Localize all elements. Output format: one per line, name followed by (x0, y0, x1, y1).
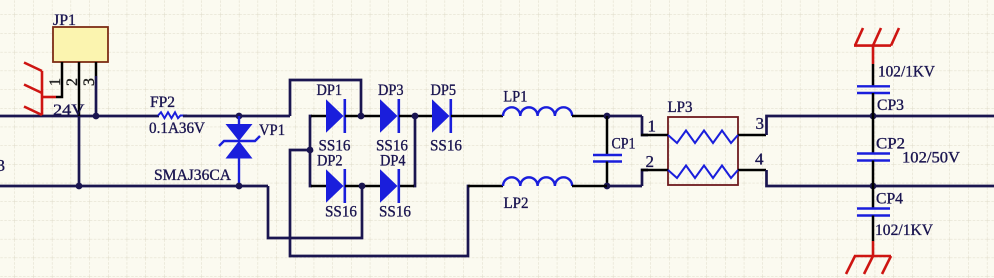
svg-text:1: 1 (47, 78, 64, 86)
junction DP1 cathode node (358, 113, 365, 120)
inductor LP2 (503, 177, 572, 186)
junction VP1 bottom (236, 183, 243, 190)
pin DP2 anode (311, 185, 326, 188)
svg-text:DP1: DP1 (317, 82, 343, 99)
chassis ground at JP1 (red) (24, 63, 56, 116)
capacitor CP1 (593, 116, 622, 186)
svg-text:LP3: LP3 (668, 99, 693, 116)
junction CP4 top on bottom rail (870, 183, 877, 190)
diode DP5 (432, 99, 451, 133)
LP3 pin 1 (641, 134, 668, 137)
svg-text:DP5: DP5 (431, 82, 457, 99)
svg-text:24V: 24V (53, 102, 85, 119)
svg-text:SS16: SS16 (325, 204, 357, 221)
LP3 pin 4 (738, 169, 766, 172)
wire LP1 to CP1 node (572, 115, 607, 118)
wire jog into LP3 pin2 (642, 170, 648, 186)
pin 2 of JP1 (78, 62, 81, 116)
inductor LP1 (503, 107, 572, 116)
wire DP5 cathode to LP1 (451, 115, 503, 118)
svg-text:102/50V: 102/50V (902, 150, 960, 167)
svg-text:DP2: DP2 (317, 153, 343, 170)
svg-text:CP2: CP2 (876, 136, 905, 153)
pin DP4 cathode (399, 185, 414, 188)
svg-text:1: 1 (648, 117, 657, 136)
wire pin2 down to bottom rail (78, 116, 81, 186)
svg-text:LP2: LP2 (504, 195, 529, 212)
svg-text:CP3: CP3 (877, 97, 904, 114)
junction DP1/DP2 anode node (307, 147, 314, 154)
diode DP3 (380, 99, 399, 133)
junction CP3 bottom on top rail (870, 113, 877, 120)
svg-text:DP3: DP3 (378, 82, 404, 99)
wire fuse to VP1 node (183, 115, 290, 118)
connector JP1 (53, 27, 108, 62)
wire DP1 anode corner (310, 116, 312, 186)
svg-text:FP2: FP2 (150, 94, 175, 111)
wire anode node to LP2 route (290, 150, 470, 256)
svg-text:0.1A36V: 0.1A36V (149, 120, 205, 137)
junction DP3 cathode node (412, 113, 419, 120)
chassis ground bottom right (red) (846, 241, 891, 274)
junction DP2 cathode node (359, 183, 366, 190)
svg-text:SS16: SS16 (379, 204, 411, 221)
svg-text:3: 3 (0, 156, 5, 175)
wire LP2 to CP1 bottom node (572, 185, 607, 188)
svg-text:SMAJ36CA: SMAJ36CA (154, 167, 231, 184)
svg-text:2: 2 (646, 152, 655, 171)
svg-text:LP1: LP1 (503, 89, 527, 106)
wire DP3 cathode to DP5 anode (399, 115, 432, 118)
fuse FP2 (158, 112, 187, 118)
TVS diode VP1 (219, 116, 260, 186)
pin DP1 anode (311, 115, 326, 118)
junction pin3 on rail (93, 113, 100, 120)
diode DP4 (380, 169, 399, 203)
junction VP1 top (236, 113, 243, 120)
wire CP1 node to LP3 jog (607, 115, 642, 118)
diode DP1 (326, 99, 345, 133)
capacitor CP2 (857, 116, 890, 186)
pin 1 of JP1 (56, 62, 62, 97)
wire jog into LP3 pin1 (642, 116, 648, 135)
wire DP2 cathode to DP4 anode (345, 185, 380, 188)
wire DP3 cathode down to DP4 cathode (413, 116, 415, 186)
svg-text:DP4: DP4 (380, 153, 406, 170)
wire LP3 pin4 to bottom output rail (767, 170, 994, 186)
svg-text:2: 2 (64, 78, 81, 86)
wire bottom rail drop-around to DP2 cathode (268, 186, 362, 238)
common mode choke LP3 box (668, 117, 738, 185)
svg-text:102/1KV: 102/1KV (875, 222, 933, 239)
LP3 pin 3 (738, 134, 766, 137)
svg-text:102/1KV: 102/1KV (878, 64, 935, 81)
wire bypass up and over DP1 (290, 80, 361, 116)
junction CP1 top (604, 113, 611, 120)
LP3 winding lower zigzag (668, 166, 738, 179)
chassis ground top right (red) (854, 28, 899, 64)
svg-text:3: 3 (756, 114, 765, 133)
svg-text:4: 4 (755, 150, 764, 169)
svg-text:JP1: JP1 (53, 12, 76, 29)
diode DP2 (326, 169, 345, 203)
wire LP3 pin3 to top output rail (767, 116, 994, 135)
svg-text:SS16: SS16 (430, 137, 462, 154)
junction pin2 on bottom rail (76, 183, 83, 190)
wire top rail left (0, 115, 159, 118)
LP3 pin 2 (641, 169, 668, 172)
wire DP1 cathode to DP3 anode (345, 115, 380, 118)
svg-text:VP1: VP1 (259, 122, 285, 139)
capacitor CP4 (857, 186, 890, 241)
wire bottom rail left (0, 185, 268, 188)
wire pin3 to 24V rail (95, 76, 98, 116)
wire CP1 bottom node to LP3 jog (607, 185, 642, 188)
junction CP1 bottom (604, 183, 611, 190)
svg-text:CP4: CP4 (876, 191, 903, 208)
pin LP2 left (468, 185, 503, 188)
svg-text:CP1: CP1 (612, 136, 636, 153)
LP3 winding upper zigzag (668, 131, 738, 144)
pin 3 of JP1 (95, 62, 98, 76)
capacitor CP3 (857, 64, 890, 116)
